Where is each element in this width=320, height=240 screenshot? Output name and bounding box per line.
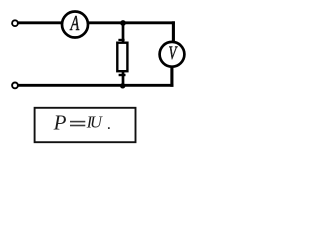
ammeter A <box>62 11 88 37</box>
resistor R <box>117 43 127 71</box>
formula box <box>35 108 136 142</box>
wire top (left terminal to right corner) <box>18 21 175 24</box>
svg-text:U: U <box>90 113 103 132</box>
junction node bottom <box>120 83 125 88</box>
wire bottom (right corner to left terminal) <box>18 84 174 87</box>
terminal top-left <box>12 20 18 26</box>
wire resistor leads (junction to junction through resistor) <box>122 23 125 85</box>
junction node top <box>120 20 126 26</box>
wire right vertical branch (top segment) <box>172 21 175 43</box>
wire right vertical branch (bottom segment) <box>170 65 173 87</box>
svg-text:A: A <box>70 11 80 34</box>
svg-text:P: P <box>53 111 67 135</box>
resistor lead tick below resistor <box>119 74 126 76</box>
svg-text:.: . <box>107 116 111 133</box>
resistor lead tick above resistor <box>118 39 124 41</box>
terminal bottom-left <box>12 83 18 89</box>
voltmeter V <box>160 42 185 67</box>
formula text P = IU. <box>53 111 112 135</box>
